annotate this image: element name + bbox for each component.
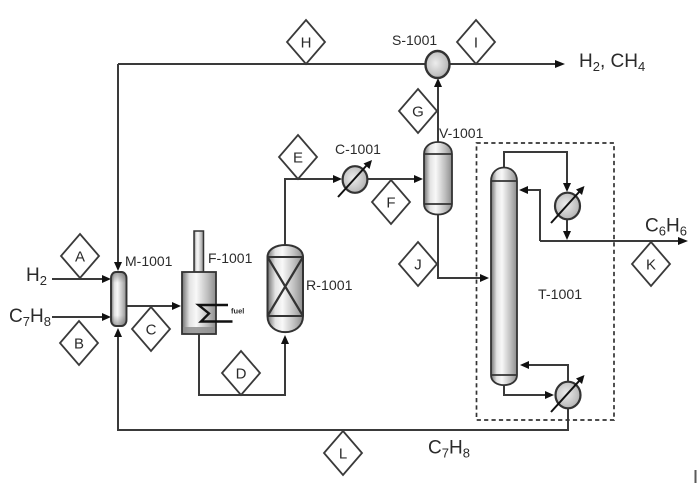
wire C7H8 feed bbox=[52, 313, 111, 321]
reactor R-1001 bbox=[268, 245, 304, 332]
svg-text:H2, CH4: H2, CH4 bbox=[579, 51, 645, 74]
stream diamond A bbox=[61, 234, 99, 278]
svg-text:R-1001: R-1001 bbox=[306, 278, 353, 294]
svg-text:D: D bbox=[236, 366, 247, 383]
fuel burner symbol bbox=[199, 305, 245, 322]
cooler C-1001 bbox=[338, 160, 372, 197]
mixer M-1001 bbox=[111, 272, 127, 326]
stream diamond E bbox=[279, 135, 317, 179]
stream diamond G bbox=[399, 89, 437, 133]
svg-text:S-1001: S-1001 bbox=[392, 32, 437, 48]
wire vessel bottoms stream J to tower bbox=[438, 214, 489, 282]
svg-text:C6H6: C6H6 bbox=[645, 216, 687, 239]
wire tower bottoms to reboiler bbox=[504, 385, 554, 399]
wire vessel overhead stream G bbox=[434, 78, 442, 142]
svg-text:C7H8: C7H8 bbox=[9, 306, 51, 329]
svg-text:M-1001: M-1001 bbox=[125, 253, 173, 269]
svg-text:H: H bbox=[301, 35, 312, 52]
svg-text:C7H8: C7H8 bbox=[428, 438, 470, 461]
svg-text:B: B bbox=[74, 336, 84, 353]
stream diamond J bbox=[399, 242, 437, 286]
wire reflux to tower bbox=[519, 186, 540, 241]
wire mixer outlet stream C bbox=[126, 302, 181, 310]
svg-text:G: G bbox=[412, 104, 424, 121]
separator S-1001 bbox=[426, 51, 450, 78]
stream diamond D bbox=[222, 351, 260, 395]
stream diamond C bbox=[132, 307, 170, 351]
svg-text:J: J bbox=[414, 257, 422, 274]
stream diamond K bbox=[632, 242, 670, 286]
wire cooler outlet stream F bbox=[367, 175, 423, 183]
furnace F-1001 chimney bbox=[194, 231, 204, 273]
svg-text:H2: H2 bbox=[26, 265, 47, 288]
stream diamond L bbox=[324, 431, 362, 475]
svg-text:fuel: fuel bbox=[231, 307, 244, 316]
condenser exchanger bbox=[551, 186, 585, 223]
svg-text:I: I bbox=[474, 35, 478, 52]
svg-text:L: L bbox=[339, 446, 347, 463]
svg-text:C-1001: C-1001 bbox=[335, 141, 381, 157]
wire condenser outlet down bbox=[563, 218, 571, 240]
stream diamond F bbox=[372, 180, 410, 224]
wire top gas line (stream H to purge) bbox=[118, 60, 565, 68]
cursor tick bottom right bbox=[695, 470, 697, 483]
wire furnace outlet stream D bbox=[199, 334, 289, 395]
wire recycle gas down to mixer bbox=[114, 64, 122, 271]
svg-text:T-1001: T-1001 bbox=[538, 287, 582, 303]
tower T-1001 bbox=[491, 168, 517, 386]
dashed battery-limit box around T-1001 bbox=[477, 143, 615, 420]
svg-text:F-1001: F-1001 bbox=[208, 250, 253, 266]
stream diamond I bbox=[457, 20, 495, 64]
stream diamond H bbox=[287, 20, 325, 64]
svg-text:C: C bbox=[146, 322, 157, 339]
stream diamond B bbox=[60, 321, 98, 365]
svg-text:A: A bbox=[75, 249, 85, 266]
wire toluene recycle stream L bbox=[114, 328, 568, 430]
svg-text:V-1001: V-1001 bbox=[439, 125, 484, 141]
vessel V-1001 bbox=[424, 142, 452, 215]
wire H2 feed bbox=[52, 275, 111, 283]
wire reactor outlet stream E bbox=[285, 175, 342, 245]
furnace F-1001 bbox=[182, 272, 216, 334]
wire tower overhead to condenser bbox=[504, 152, 571, 192]
svg-text:K: K bbox=[646, 257, 656, 274]
wire benzene product stream K bbox=[540, 237, 688, 245]
svg-text:F: F bbox=[386, 195, 395, 212]
wire reboiler return to tower bbox=[520, 361, 568, 383]
reboiler exchanger bbox=[551, 375, 585, 412]
svg-text:E: E bbox=[293, 150, 303, 167]
